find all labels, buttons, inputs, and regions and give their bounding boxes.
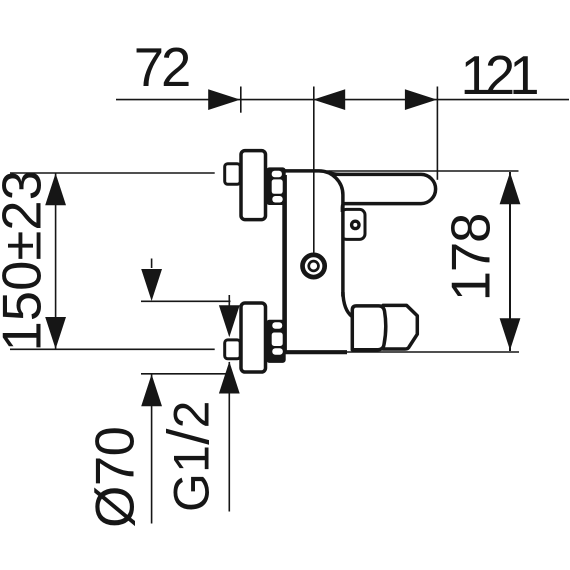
svg-text:72: 72 xyxy=(134,37,192,98)
svg-text:150±23: 150±23 xyxy=(0,170,53,351)
svg-text:G1/2: G1/2 xyxy=(157,401,222,513)
svg-text:Ø70: Ø70 xyxy=(85,426,146,528)
svg-text:178: 178 xyxy=(441,213,502,302)
svg-text:121: 121 xyxy=(461,45,540,106)
